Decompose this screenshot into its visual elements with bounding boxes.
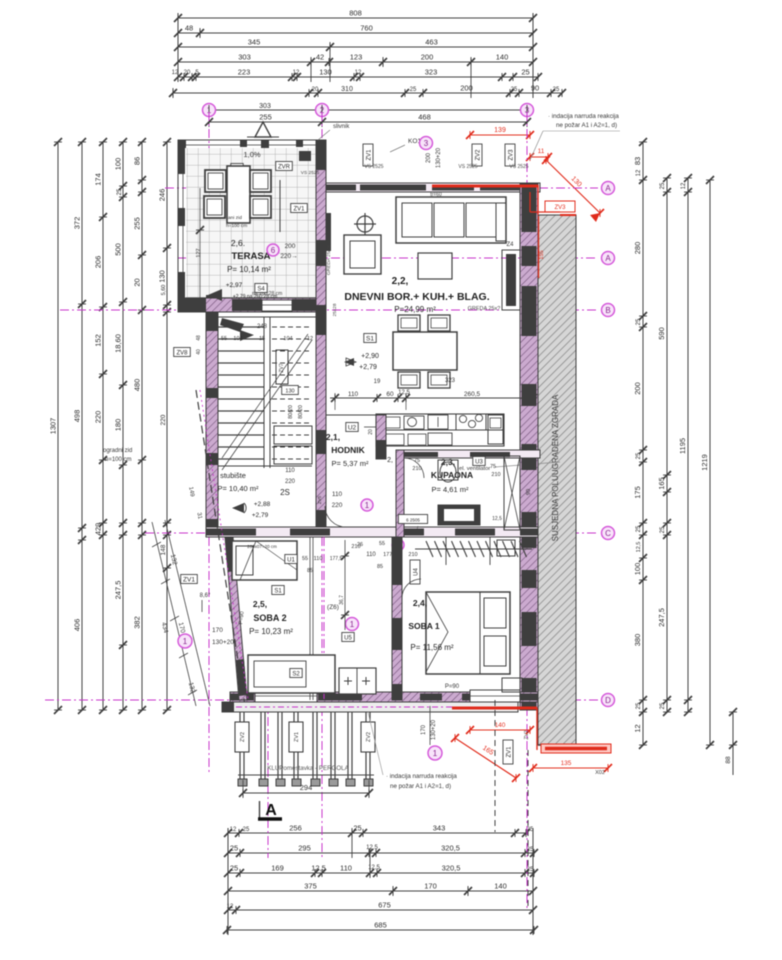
- svg-text:S1: S1: [366, 336, 374, 343]
- svg-text:SOBA 1: SOBA 1: [408, 621, 440, 631]
- svg-text:210: 210: [351, 544, 360, 550]
- svg-text:200: 200: [633, 382, 642, 395]
- svg-text:375: 375: [304, 882, 317, 891]
- svg-text:100: 100: [633, 563, 642, 576]
- svg-text:S1: S1: [274, 589, 282, 595]
- svg-text:25: 25: [230, 864, 238, 873]
- svg-text:85: 85: [377, 564, 383, 570]
- svg-text:S4: S4: [257, 287, 265, 293]
- svg-text:VS 2525: VS 2525: [364, 164, 383, 170]
- svg-text:320,5: 320,5: [442, 864, 461, 873]
- svg-text:2,2,: 2,2,: [392, 276, 409, 287]
- svg-text:323: 323: [425, 68, 438, 77]
- svg-text:220: 220: [94, 411, 103, 424]
- svg-text:110: 110: [314, 556, 323, 562]
- svg-text:303: 303: [238, 53, 251, 62]
- svg-text:ne požar A1 i A2=1, d): ne požar A1 i A2=1, d): [390, 783, 451, 790]
- svg-text:P=24,99 m²: P=24,99 m²: [394, 305, 436, 314]
- svg-text:ZV8: ZV8: [176, 351, 188, 357]
- svg-text:463: 463: [425, 38, 438, 47]
- svg-text:+2,90: +2,90: [361, 353, 379, 360]
- svg-text:372: 372: [73, 217, 82, 230]
- svg-text:1: 1: [350, 620, 355, 629]
- svg-text:6 2505: 6 2505: [406, 518, 420, 523]
- svg-text:18,60: 18,60: [114, 334, 123, 353]
- svg-text:80/20: 80/20: [298, 405, 304, 419]
- svg-text:246: 246: [158, 189, 167, 202]
- svg-text:P= 11,56 m²: P= 11,56 m²: [410, 643, 454, 652]
- svg-text:80/20: 80/20: [288, 405, 294, 419]
- svg-text:ZVR: ZVR: [278, 165, 291, 171]
- svg-text:12: 12: [633, 724, 642, 732]
- svg-text:+2,79: +2,79: [359, 364, 377, 371]
- svg-text:498: 498: [73, 410, 82, 423]
- svg-text:100: 100: [114, 158, 123, 171]
- svg-text:VS 2525: VS 2525: [301, 170, 320, 176]
- svg-text:12,5: 12,5: [398, 390, 410, 396]
- svg-text:2,1,: 2,1,: [326, 432, 340, 442]
- svg-text:200: 200: [421, 53, 434, 62]
- svg-text:480: 480: [133, 379, 142, 392]
- svg-text:260x07=20 cm: 260x07=20 cm: [247, 544, 277, 549]
- svg-text:(Z6): (Z6): [327, 604, 339, 611]
- svg-text:310: 310: [341, 86, 353, 93]
- svg-text:+2,88: +2,88: [254, 501, 271, 508]
- svg-text:12: 12: [230, 827, 237, 833]
- svg-text:19: 19: [374, 379, 381, 385]
- svg-text:P= 4,61 m²: P= 4,61 m²: [432, 485, 469, 494]
- svg-text:12: 12: [307, 336, 313, 342]
- svg-text:110: 110: [348, 391, 359, 398]
- svg-text:2S: 2S: [280, 488, 290, 497]
- svg-text:294: 294: [300, 783, 313, 792]
- svg-text:GREDA 25/28: GREDA 25/28: [326, 245, 332, 275]
- svg-text:U1: U1: [287, 558, 295, 564]
- svg-text:ZV1: ZV1: [294, 732, 300, 742]
- svg-text:· indacija narruda reakcija: · indacija narruda reakcija: [548, 113, 619, 120]
- svg-text:+2,79 na 260:28 cm: +2,79 na 260:28 cm: [233, 294, 277, 300]
- svg-text:P= 10,40 m²: P= 10,40 m²: [217, 484, 259, 493]
- svg-text:11: 11: [538, 148, 545, 155]
- svg-text:130+20: 130+20: [436, 147, 442, 168]
- svg-text:ZV1: ZV1: [367, 149, 373, 161]
- svg-text:12: 12: [681, 182, 687, 189]
- svg-text:200: 200: [285, 243, 296, 250]
- svg-text:210: 210: [408, 552, 417, 558]
- svg-text:2,6.: 2,6.: [231, 238, 245, 248]
- svg-text:323: 323: [445, 378, 456, 384]
- svg-text:S2: S2: [292, 672, 300, 678]
- svg-text:ZV1: ZV1: [293, 207, 305, 213]
- svg-text:25: 25: [410, 87, 417, 93]
- svg-text:1219: 1219: [700, 454, 709, 471]
- svg-text:D: D: [605, 696, 611, 705]
- svg-text:110: 110: [332, 491, 343, 498]
- svg-text:685: 685: [374, 921, 387, 930]
- svg-text:177,5: 177,5: [330, 556, 343, 562]
- svg-text:ZV1: ZV1: [507, 746, 513, 758]
- svg-text:247,5: 247,5: [657, 608, 666, 627]
- svg-text:808: 808: [349, 9, 362, 18]
- svg-text:110: 110: [366, 552, 376, 558]
- svg-text:12,5: 12,5: [366, 845, 378, 851]
- svg-text:88: 88: [725, 756, 732, 764]
- svg-text:429: 429: [94, 523, 103, 536]
- svg-text:255: 255: [133, 217, 142, 230]
- svg-text:220: 220: [332, 502, 343, 509]
- svg-text:20: 20: [133, 278, 142, 286]
- svg-text:ZV2: ZV2: [524, 730, 530, 739]
- svg-text:1195: 1195: [678, 438, 687, 454]
- svg-text:P=90: P=90: [445, 684, 460, 690]
- svg-text:P= 5,37 m²: P= 5,37 m²: [332, 459, 369, 468]
- svg-text:140: 140: [495, 722, 506, 729]
- svg-text:slivnik: slivnik: [333, 124, 350, 130]
- svg-text:P= 10,14 m²: P= 10,14 m²: [227, 265, 271, 274]
- svg-text:165: 165: [657, 477, 666, 490]
- svg-text:152: 152: [94, 334, 103, 347]
- svg-text:25: 25: [660, 526, 666, 533]
- svg-text:25: 25: [636, 318, 642, 325]
- svg-text:140: 140: [496, 53, 509, 62]
- svg-text:2,: 2,: [387, 457, 393, 464]
- svg-text:3: 3: [424, 139, 429, 148]
- svg-text:123: 123: [350, 53, 363, 62]
- svg-text:75: 75: [490, 464, 496, 470]
- svg-text:SOBA 2: SOBA 2: [253, 613, 286, 623]
- svg-text:382: 382: [133, 616, 142, 629]
- svg-text:210: 210: [491, 472, 500, 478]
- svg-text:12: 12: [293, 70, 300, 76]
- svg-text:ZV2: ZV2: [240, 732, 246, 742]
- svg-text:90: 90: [531, 84, 539, 93]
- svg-text:+2,97: +2,97: [226, 282, 243, 289]
- svg-text:170: 170: [212, 627, 223, 634]
- svg-text:90: 90: [526, 489, 532, 495]
- svg-text:GREDA 25x?: GREDA 25x?: [468, 306, 501, 312]
- svg-text:P= 10,23 m²: P= 10,23 m²: [249, 627, 293, 636]
- svg-text:12: 12: [636, 169, 642, 176]
- svg-text:25: 25: [636, 452, 642, 459]
- svg-text:U3: U3: [475, 460, 483, 466]
- svg-text:U2: U2: [348, 425, 357, 432]
- svg-text:25: 25: [353, 824, 361, 833]
- svg-text:303: 303: [259, 103, 271, 110]
- svg-text:h=100 cm: h=100 cm: [226, 223, 247, 229]
- svg-text:ZV2: ZV2: [476, 149, 482, 161]
- svg-text:20: 20: [184, 70, 191, 76]
- svg-text:2,4,: 2,4,: [413, 598, 427, 608]
- svg-text:500: 500: [114, 243, 123, 256]
- svg-text:25: 25: [660, 702, 666, 709]
- svg-text:104: 104: [233, 336, 242, 342]
- svg-text:468: 468: [418, 113, 431, 122]
- svg-text:h=100 cm: h=100 cm: [105, 457, 132, 463]
- svg-text:6: 6: [271, 246, 276, 255]
- svg-text:12: 12: [355, 70, 362, 76]
- svg-text:127: 127: [196, 248, 202, 257]
- svg-text:A: A: [605, 184, 611, 193]
- svg-text:406: 406: [73, 619, 82, 632]
- svg-text:1: 1: [365, 501, 370, 510]
- svg-text:U4: U4: [414, 568, 420, 576]
- svg-text:248: 248: [257, 324, 268, 330]
- svg-text:130+20: 130+20: [431, 719, 437, 740]
- svg-text:247,5: 247,5: [114, 581, 123, 600]
- svg-text:85: 85: [307, 568, 313, 574]
- svg-text:1: 1: [433, 749, 438, 758]
- svg-text:180: 180: [114, 419, 123, 432]
- svg-text:25: 25: [636, 702, 642, 709]
- svg-text:25: 25: [636, 525, 642, 532]
- svg-text:345: 345: [248, 38, 261, 47]
- svg-text:A: A: [265, 802, 277, 819]
- svg-text:12,5: 12,5: [492, 516, 502, 522]
- svg-text:12,5: 12,5: [311, 864, 326, 873]
- svg-text:DNEVNI BOR.+ KUH.+ BLAG.: DNEVNI BOR.+ KUH.+ BLAG.: [344, 291, 489, 303]
- svg-text:ZV3: ZV3: [554, 205, 566, 211]
- svg-text:ZV1: ZV1: [183, 577, 195, 584]
- svg-text:ogradni zid: ogradni zid: [103, 448, 132, 454]
- svg-text:48: 48: [196, 335, 202, 341]
- svg-text:25: 25: [230, 844, 238, 853]
- svg-text:760: 760: [360, 24, 373, 33]
- svg-text:86: 86: [133, 157, 142, 165]
- svg-text:55: 55: [379, 541, 385, 547]
- svg-text:KLUPomestavka - PERGOLA: KLUPomestavka - PERGOLA: [267, 765, 349, 772]
- svg-text:U5: U5: [344, 636, 352, 642]
- svg-text:169: 169: [271, 864, 284, 873]
- svg-text:130+20: 130+20: [212, 639, 234, 646]
- svg-text:110: 110: [285, 468, 295, 474]
- svg-text:170: 170: [421, 724, 427, 735]
- svg-text:220: 220: [285, 479, 296, 485]
- svg-text:1: 1: [183, 637, 188, 646]
- svg-text:55: 55: [221, 336, 227, 342]
- svg-text:KUPAONA: KUPAONA: [431, 470, 473, 480]
- svg-text:130: 130: [158, 270, 167, 283]
- svg-text:A: A: [605, 254, 611, 263]
- svg-text:20: 20: [368, 429, 374, 435]
- svg-text:SUSJEDNA POLUUGRADENA ZGRADA: SUSJEDNA POLUUGRADENA ZGRADA: [551, 394, 560, 541]
- svg-text:130: 130: [285, 389, 294, 395]
- svg-text:60: 60: [386, 391, 394, 398]
- svg-text:25: 25: [243, 827, 250, 833]
- svg-text:ZV5: ZV5: [317, 495, 322, 504]
- svg-text:206: 206: [94, 256, 103, 269]
- svg-text:25: 25: [511, 87, 518, 93]
- svg-text:25x28: 25x28: [332, 303, 338, 316]
- svg-text:HODNIK: HODNIK: [331, 445, 365, 455]
- svg-text:ani zid: ani zid: [228, 215, 242, 221]
- svg-text:255: 255: [259, 113, 272, 122]
- svg-text:25: 25: [521, 68, 529, 77]
- svg-text:1307: 1307: [49, 418, 58, 435]
- svg-text:/→: /→: [417, 526, 423, 532]
- svg-text:1,0%: 1,0%: [243, 150, 260, 159]
- svg-text:220: 220: [160, 414, 167, 425]
- svg-text:675: 675: [378, 901, 391, 910]
- svg-text:5,60: 5,60: [161, 285, 167, 296]
- svg-text:175: 175: [633, 486, 642, 499]
- svg-text:48: 48: [185, 24, 193, 33]
- svg-text:42: 42: [316, 53, 324, 62]
- svg-text:36,7: 36,7: [339, 595, 345, 605]
- svg-text:83: 83: [633, 157, 642, 165]
- svg-text:+2,79: +2,79: [252, 512, 269, 519]
- svg-text:Z4: Z4: [506, 242, 514, 248]
- svg-text:stubište: stubište: [220, 471, 246, 480]
- svg-text:104: 104: [283, 336, 292, 342]
- svg-text:25: 25: [660, 182, 666, 189]
- svg-text:256: 256: [289, 824, 302, 833]
- svg-text:ne požar A1 i A2=1, d): ne požar A1 i A2=1, d): [556, 122, 617, 129]
- svg-text:148: 148: [160, 544, 167, 555]
- svg-text:140: 140: [494, 882, 507, 891]
- svg-text:320,5: 320,5: [441, 844, 460, 853]
- svg-text:155: 155: [539, 250, 545, 259]
- svg-text:55: 55: [302, 556, 308, 562]
- svg-text:590: 590: [657, 327, 666, 340]
- svg-text:200: 200: [426, 152, 432, 163]
- svg-text:220→: 220→: [280, 253, 297, 260]
- svg-text:40: 40: [196, 349, 202, 355]
- svg-text:TERASA: TERASA: [231, 251, 270, 262]
- svg-text:380: 380: [633, 634, 642, 647]
- svg-text:135: 135: [561, 760, 572, 767]
- svg-text:174: 174: [94, 173, 103, 186]
- svg-text:20: 20: [312, 87, 319, 93]
- svg-text:VS 2525: VS 2525: [509, 164, 528, 170]
- svg-text:ZV3: ZV3: [509, 149, 515, 161]
- svg-text:tr=60: tr=60: [430, 192, 442, 198]
- svg-text:· indacija narruda reakcija: · indacija narruda reakcija: [386, 773, 457, 780]
- svg-text:139: 139: [494, 127, 506, 134]
- svg-text:260,5: 260,5: [464, 391, 481, 398]
- svg-text:25: 25: [553, 87, 560, 93]
- svg-text:8,6°: 8,6°: [200, 593, 211, 599]
- svg-text:X02: X02: [595, 770, 605, 776]
- svg-text:280: 280: [633, 242, 642, 255]
- svg-text:B: B: [605, 306, 610, 315]
- svg-text:ZV2: ZV2: [366, 732, 372, 742]
- svg-text:110: 110: [340, 864, 352, 873]
- svg-text:25: 25: [117, 188, 123, 195]
- svg-text:295: 295: [298, 844, 311, 853]
- svg-text:C: C: [605, 529, 611, 538]
- svg-text:VS 2525: VS 2525: [458, 164, 477, 170]
- svg-text:15: 15: [259, 336, 265, 342]
- svg-text:12,5: 12,5: [636, 542, 642, 553]
- svg-text:223: 223: [238, 68, 251, 77]
- svg-text:170: 170: [424, 882, 437, 891]
- svg-text:343: 343: [433, 824, 446, 833]
- svg-text:2,5,: 2,5,: [253, 599, 267, 609]
